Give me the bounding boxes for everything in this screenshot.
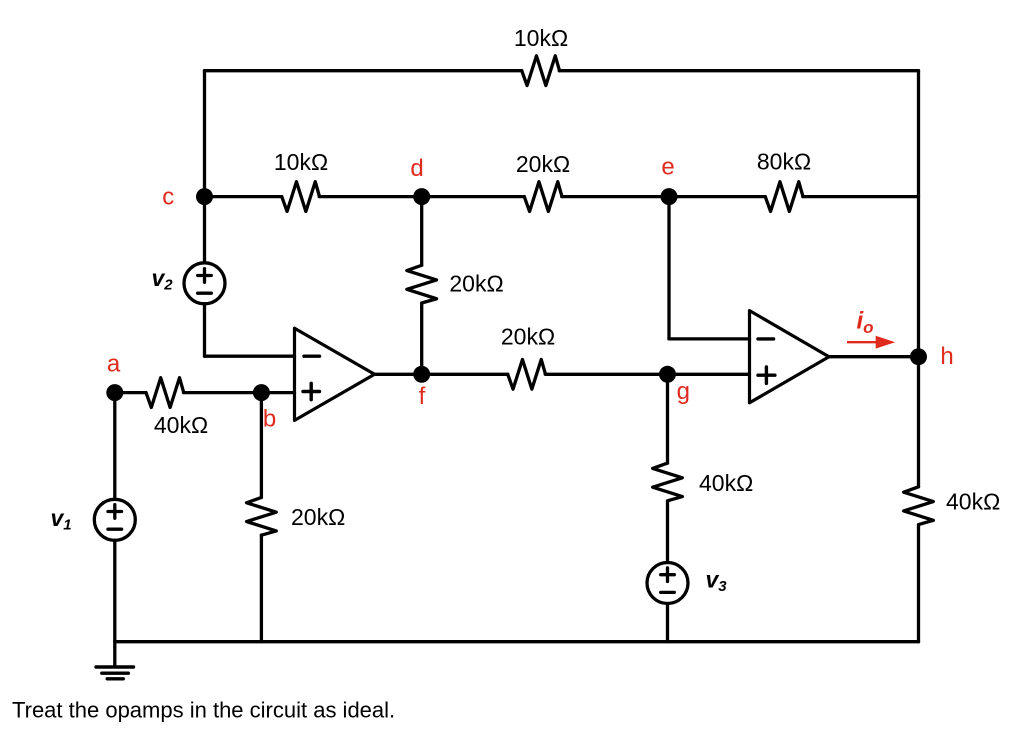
resistor 20k below b bbox=[247, 497, 277, 535]
wire: bottom rail bbox=[115, 640, 919, 643]
wire: a down to v1 bbox=[113, 393, 116, 499]
op-amp U1 plus sign bbox=[303, 390, 320, 393]
svg-text:e: e bbox=[661, 154, 674, 181]
wire: 20k through g into op-amp2 plus bbox=[545, 373, 749, 376]
svg-text:f: f bbox=[419, 383, 426, 410]
voltage source v3 circle bbox=[647, 563, 688, 604]
resistor 40k below g bbox=[653, 463, 683, 501]
v2 minus sign bbox=[198, 292, 212, 295]
op-amp U2 triangle bbox=[750, 311, 830, 403]
svg-text:a: a bbox=[107, 351, 121, 378]
wire: a to 40k bbox=[115, 391, 146, 394]
op-amp U2 minus sign bbox=[758, 337, 774, 340]
svg-text:40kΩ: 40kΩ bbox=[154, 412, 208, 438]
node h junction dot bbox=[910, 348, 927, 365]
wire: 40k through b into op-amp1 plus bbox=[184, 391, 295, 394]
op-amp U1 minus sign bbox=[304, 355, 320, 358]
node b junction dot bbox=[253, 384, 270, 401]
svg-text:d: d bbox=[410, 155, 423, 182]
svg-text:b: b bbox=[263, 406, 276, 433]
wire: e down bbox=[667, 197, 670, 339]
svg-text:20kΩ: 20kΩ bbox=[291, 504, 345, 530]
wire: 20k down to f bbox=[420, 304, 423, 374]
v3 minus sign bbox=[661, 591, 675, 594]
wire: v1 down to bottom rail bbox=[113, 540, 116, 641]
resistor 10k top feedback bbox=[522, 56, 560, 86]
resistor 20k between d and e bbox=[524, 182, 562, 212]
svg-text:v1: v1 bbox=[51, 505, 72, 534]
svg-text:80kΩ: 80kΩ bbox=[757, 149, 811, 175]
v1 minus sign bbox=[108, 528, 122, 531]
svg-text:40kΩ: 40kΩ bbox=[699, 470, 753, 496]
node f junction dot bbox=[413, 366, 430, 383]
wire: top horizontal left of 10k bbox=[205, 69, 522, 72]
svg-text:20kΩ: 20kΩ bbox=[449, 270, 503, 296]
wire: row 80k to right rail bbox=[803, 195, 919, 198]
wire: row 10k to d to 20k bbox=[319, 195, 524, 198]
wire: 40k down to v3 bbox=[666, 501, 669, 562]
svg-text:Treat the opamps in the circui: Treat the opamps in the circuit as ideal… bbox=[12, 698, 395, 723]
wire: row 20k to e to 80k bbox=[562, 195, 766, 198]
node a junction dot bbox=[106, 384, 123, 401]
wire: c up to top-left corner bbox=[203, 71, 206, 197]
resistor 10k between c and d bbox=[282, 182, 320, 212]
wire: v3 down to bottom rail bbox=[666, 604, 669, 642]
resistor 40k right bbox=[904, 487, 934, 525]
ground bbox=[96, 665, 134, 668]
op-amp U1 triangle bbox=[295, 328, 375, 420]
svg-text:20kΩ: 20kΩ bbox=[516, 151, 570, 177]
wire: top horizontal right of 10k bbox=[559, 69, 918, 72]
resistor 80k between e and right rail bbox=[765, 182, 803, 212]
voltage source v1 circle bbox=[94, 499, 135, 540]
svg-text:10kΩ: 10kΩ bbox=[274, 149, 328, 175]
resistor 20k between f and g bbox=[508, 359, 546, 389]
resistor 20k between d and f bbox=[407, 265, 437, 303]
node d junction dot bbox=[413, 188, 430, 205]
node c junction dot bbox=[196, 188, 213, 205]
svg-text:10kΩ: 10kΩ bbox=[514, 25, 568, 51]
resistor 40k between a and b bbox=[146, 378, 184, 408]
svg-text:40kΩ: 40kΩ bbox=[946, 489, 1000, 515]
svg-text:20kΩ: 20kΩ bbox=[501, 323, 555, 349]
wire: ground stem bbox=[113, 642, 116, 667]
wire: d down to 20k vertical bbox=[420, 197, 423, 266]
node e junction dot bbox=[661, 188, 678, 205]
wire: 20k down to bottom rail bbox=[260, 535, 263, 642]
svg-text:h: h bbox=[940, 343, 953, 370]
wire: right vertical lower (40k to bottom) bbox=[917, 526, 920, 642]
v2 plus sign bbox=[198, 274, 212, 277]
svg-text:io: io bbox=[857, 308, 874, 338]
svg-text:v3: v3 bbox=[706, 567, 728, 596]
wire: g down to 40k bbox=[666, 374, 669, 463]
node g junction dot bbox=[659, 366, 676, 383]
svg-text:c: c bbox=[162, 184, 174, 211]
v3 plus sign bbox=[661, 573, 675, 576]
wire: op-amp2 output to h bbox=[829, 355, 919, 358]
wire: row c to 10k bbox=[205, 195, 282, 198]
v1 plus sign bbox=[108, 510, 122, 513]
wire: right vertical upper (top to 40k) bbox=[917, 71, 920, 487]
wire: op-amp1 output through f to 20k bbox=[375, 373, 508, 376]
svg-text:g: g bbox=[677, 378, 690, 405]
svg-text:v2: v2 bbox=[152, 265, 174, 294]
op-amp U2 plus sign bbox=[758, 374, 775, 377]
voltage source v2 circle bbox=[184, 263, 225, 304]
wire: v2 down then right into op-amp1 minus bbox=[203, 304, 206, 356]
wire: c down to v2 bbox=[203, 197, 206, 263]
current arrow io bbox=[847, 341, 877, 343]
wire: into op-amp2 minus bbox=[669, 337, 750, 340]
wire: b down to 20k bbox=[260, 393, 263, 498]
